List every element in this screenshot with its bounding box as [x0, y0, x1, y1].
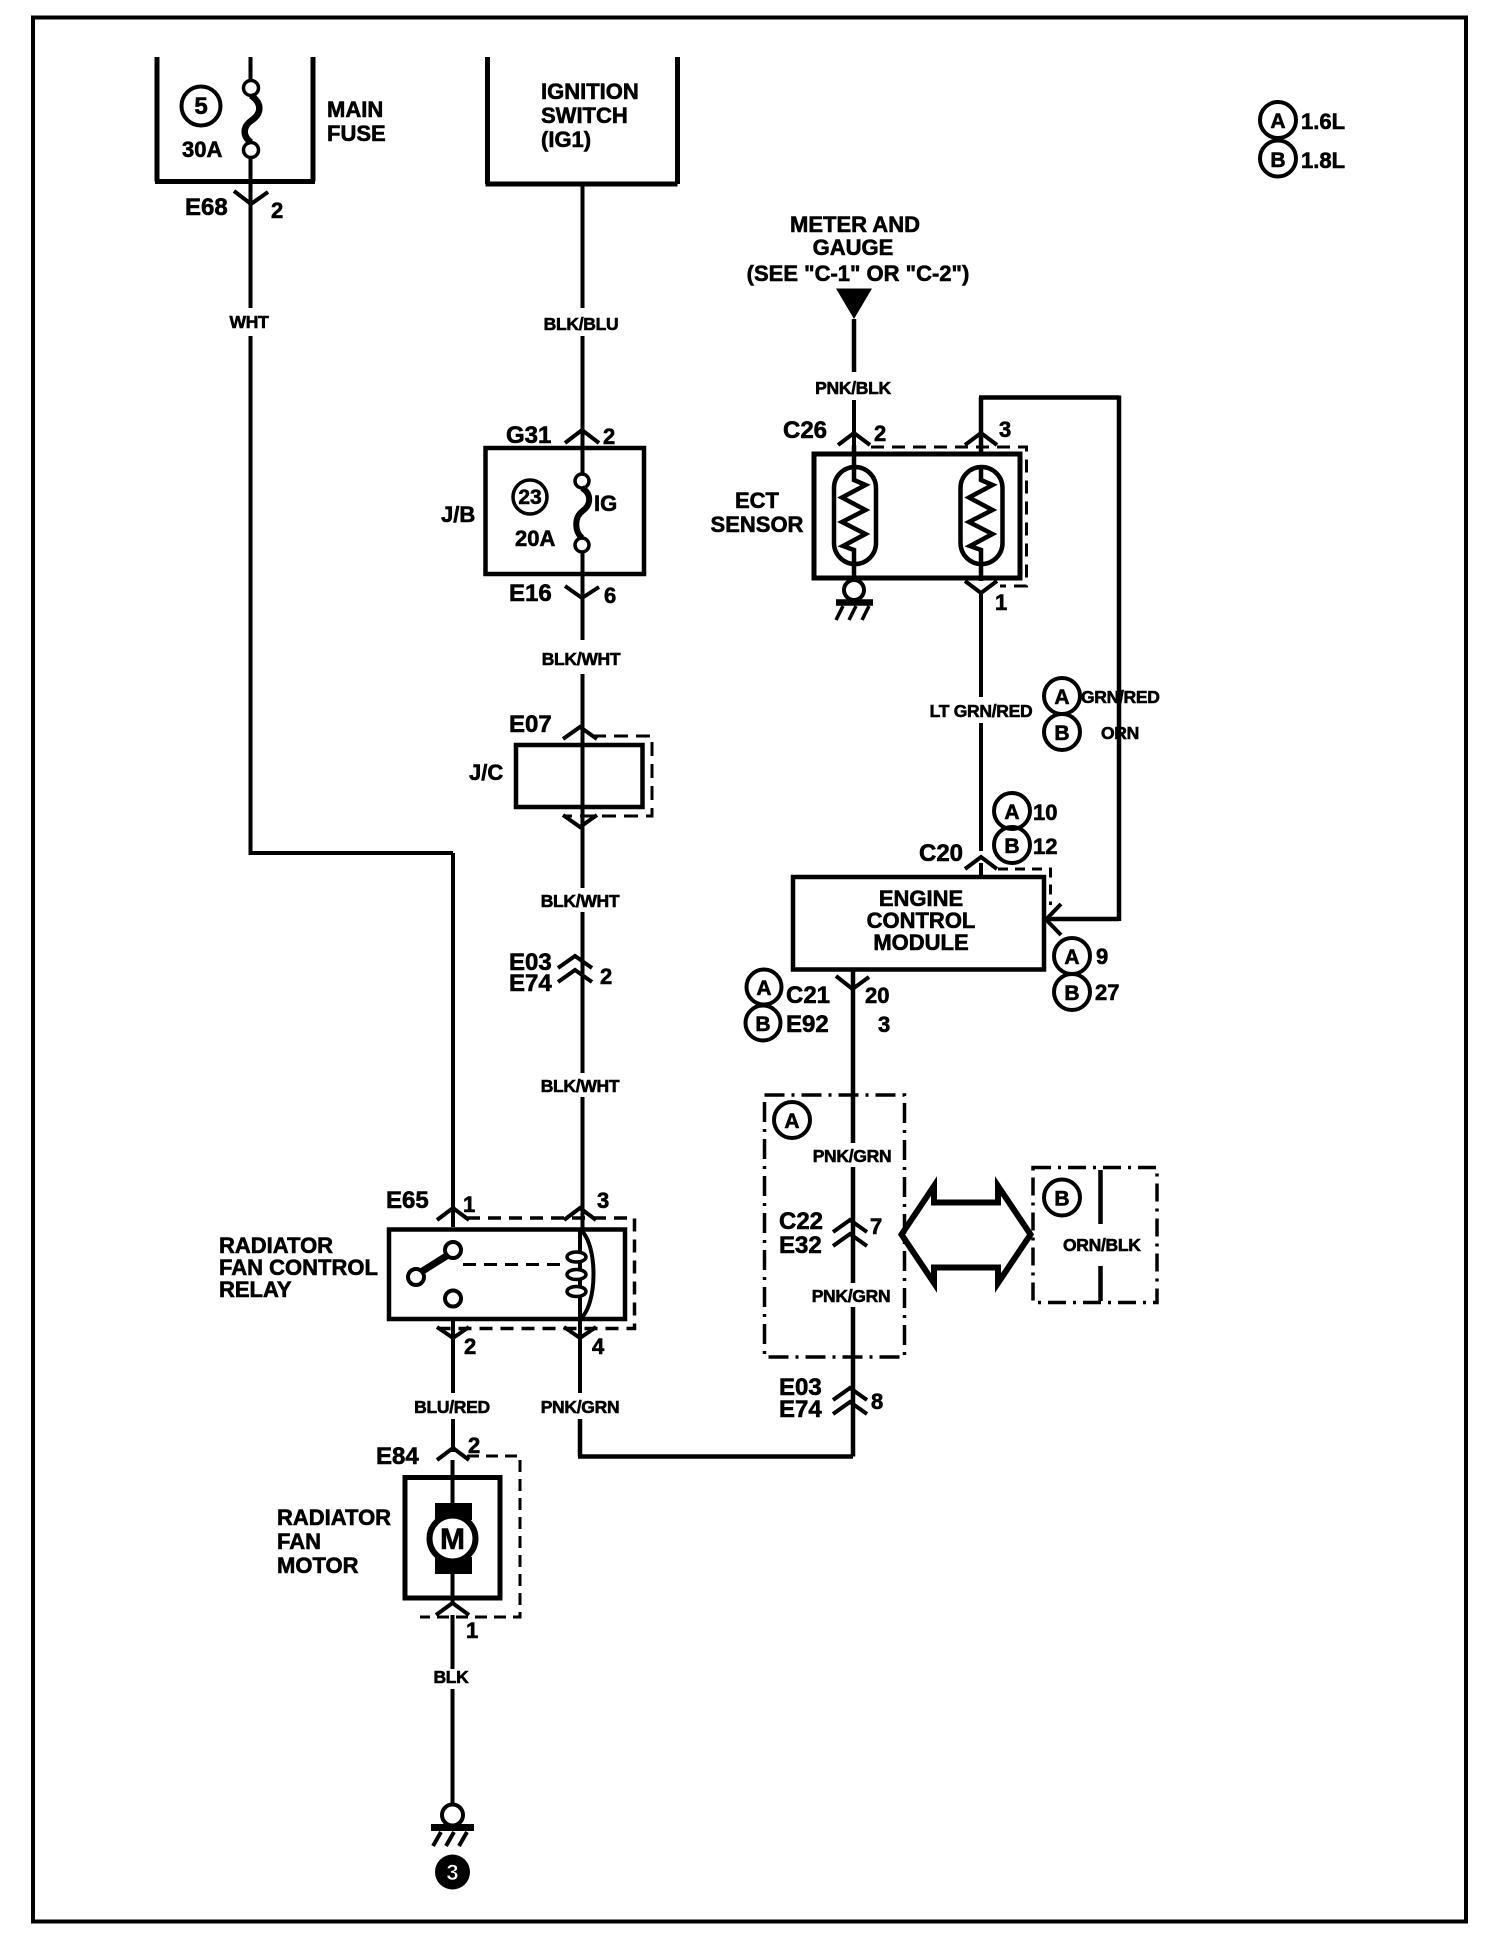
svg-text:23: 23: [518, 486, 541, 509]
svg-text:PNK/GRN: PNK/GRN: [813, 1146, 892, 1166]
svg-text:2: 2: [464, 1334, 476, 1359]
svg-text:20: 20: [865, 983, 889, 1008]
svg-text:BLK/BLU: BLK/BLU: [544, 314, 619, 334]
svg-text:2: 2: [271, 198, 283, 223]
svg-text:C22: C22: [779, 1208, 823, 1235]
svg-text:M: M: [440, 1523, 465, 1556]
svg-text:FAN: FAN: [277, 1529, 321, 1554]
svg-text:C26: C26: [783, 417, 827, 444]
svg-text:C21: C21: [786, 982, 830, 1009]
svg-text:B: B: [1054, 1188, 1069, 1211]
svg-text:2: 2: [468, 1433, 480, 1458]
wire BLK/WHT segment 1: [581, 574, 585, 640]
legend circle B 1.8L: [1260, 141, 1345, 177]
svg-text:B: B: [755, 1013, 770, 1036]
svg-text:WHT: WHT: [230, 312, 270, 332]
svg-text:E65: E65: [386, 1187, 429, 1214]
right thermistor: [961, 467, 1003, 581]
relay pin 2: [437, 1327, 469, 1338]
wire into motor: [451, 1460, 455, 1603]
svg-text:(IG1): (IG1): [541, 127, 591, 152]
motor dashed box: [420, 1456, 520, 1617]
dashed box B: [1033, 1168, 1157, 1303]
ground: [431, 1805, 474, 1847]
svg-text:A: A: [784, 1110, 799, 1133]
relay coil: [578, 1230, 582, 1320]
svg-text:5: 5: [194, 93, 207, 120]
svg-text:B: B: [1064, 982, 1079, 1005]
fuse IG 20A symbol: [575, 448, 589, 574]
svg-text:12: 12: [1033, 834, 1057, 859]
svg-text:A: A: [1054, 686, 1069, 709]
svg-text:PNK/BLK: PNK/BLK: [815, 378, 891, 398]
junction connector J/C box: [516, 745, 643, 807]
svg-text:A: A: [756, 977, 771, 1000]
circle A pin 9: [1054, 938, 1090, 974]
wire loop from ECT pin 3 to ECM: [979, 396, 1119, 922]
arrow to meter: [836, 289, 872, 320]
svg-text:10: 10: [1033, 800, 1057, 825]
wire WHT from main fuse to relay pin 1: [249, 182, 253, 309]
svg-text:6: 6: [604, 583, 616, 608]
svg-text:MODULE: MODULE: [873, 930, 968, 955]
main fuse box: [155, 57, 315, 182]
svg-text:RADIATOR: RADIATOR: [277, 1505, 391, 1530]
circle 23: [513, 480, 547, 514]
wire PNK/BLK: [852, 319, 857, 372]
wire LT GRN/RED: [979, 593, 983, 697]
svg-text:ORN/BLK: ORN/BLK: [1063, 1235, 1141, 1255]
ECT sensor box: [814, 454, 1020, 578]
wire PNK/GRN from relay pin 4: [578, 1319, 582, 1393]
fuse F5 30A symbol: [244, 57, 260, 182]
svg-text:J/B: J/B: [441, 502, 475, 527]
svg-text:1: 1: [995, 590, 1007, 615]
svg-text:27: 27: [1095, 980, 1119, 1005]
circle A pin 10: [994, 793, 1030, 829]
svg-text:BLK/WHT: BLK/WHT: [541, 891, 620, 911]
ECT pin 1: [965, 581, 997, 593]
svg-text:20A: 20A: [515, 526, 555, 551]
svg-text:30A: 30A: [182, 137, 222, 162]
svg-text:9: 9: [1096, 944, 1108, 969]
svg-text:7: 7: [870, 1214, 882, 1239]
svg-text:IG: IG: [594, 491, 617, 516]
svg-text:SENSOR: SENSOR: [711, 512, 804, 537]
circle B pin 12: [994, 827, 1030, 863]
circle B pin 27: [1054, 974, 1090, 1010]
engine control module box: [793, 877, 1044, 970]
motor M circle: [430, 1516, 476, 1562]
svg-text:FUSE: FUSE: [327, 121, 386, 146]
svg-text:J/C: J/C: [469, 760, 503, 785]
relay internal dashed link: [463, 1263, 566, 1266]
connector C21/E92 below ECM: [851, 970, 856, 1144]
ignition switch box: [486, 57, 678, 184]
svg-text:2: 2: [600, 964, 612, 989]
fuse number circle 5: [182, 87, 221, 126]
dashed box A: [765, 1095, 905, 1357]
svg-text:E84: E84: [376, 1443, 419, 1470]
wire BLK/BLU: [581, 184, 585, 308]
svg-text:E68: E68: [185, 194, 228, 221]
svg-text:3: 3: [446, 1860, 458, 1885]
svg-text:IGNITION: IGNITION: [541, 79, 639, 104]
svg-text:LT GRN/RED: LT GRN/RED: [930, 701, 1033, 721]
left thermistor: [834, 445, 876, 580]
wire stub in box B: [1098, 1170, 1103, 1301]
svg-text:METER AND: METER AND: [790, 212, 920, 237]
svg-text:1: 1: [463, 1192, 475, 1217]
svg-text:MAIN: MAIN: [327, 97, 383, 122]
svg-text:MOTOR: MOTOR: [277, 1553, 359, 1578]
svg-text:BLK/WHT: BLK/WHT: [542, 649, 621, 669]
svg-text:8: 8: [871, 1389, 883, 1414]
relay pin 1: [437, 1208, 469, 1220]
svg-text:1.6L: 1.6L: [1301, 109, 1345, 134]
svg-text:PNK/GRN: PNK/GRN: [541, 1397, 620, 1417]
svg-text:4: 4: [592, 1334, 605, 1359]
junction connector J/C dashed box: [564, 736, 652, 816]
svg-text:B: B: [1054, 722, 1069, 745]
svg-text:E74: E74: [779, 1396, 822, 1423]
svg-text:ECT: ECT: [735, 488, 780, 513]
ECT ground: [836, 580, 873, 620]
C20 dashed boundary: [998, 869, 1051, 905]
svg-text:E92: E92: [786, 1011, 829, 1038]
svg-text:E74: E74: [509, 970, 552, 997]
big double arrow: [902, 1186, 1031, 1283]
svg-text:3: 3: [597, 1188, 609, 1213]
radiator fan motor box: [405, 1478, 500, 1599]
svg-text:(SEE "C-1" OR "C-2"): (SEE "C-1" OR "C-2"): [747, 261, 970, 286]
junction block J/B box: [486, 448, 645, 574]
relay pin 3: [564, 1208, 596, 1220]
connector arrow below J/C: [563, 815, 597, 827]
svg-text:GAUGE: GAUGE: [813, 235, 894, 260]
svg-text:A: A: [1004, 801, 1019, 824]
svg-text:A: A: [1064, 946, 1079, 969]
radiator fan control relay box: [389, 1230, 625, 1320]
ground point 3: [435, 1855, 470, 1890]
svg-text:RELAY: RELAY: [219, 1277, 292, 1302]
svg-text:E32: E32: [779, 1232, 822, 1259]
svg-text:3: 3: [878, 1012, 890, 1037]
relay dashed box: [437, 1218, 635, 1329]
svg-text:C20: C20: [919, 840, 963, 867]
svg-text:1: 1: [466, 1618, 478, 1643]
motor pin 1: [436, 1603, 469, 1615]
svg-text:B: B: [1270, 149, 1285, 172]
svg-text:B: B: [1004, 835, 1019, 858]
svg-text:E07: E07: [509, 711, 552, 738]
svg-text:2: 2: [874, 421, 886, 446]
svg-text:3: 3: [999, 417, 1011, 442]
svg-text:G31: G31: [506, 422, 551, 449]
svg-text:PNK/GRN: PNK/GRN: [812, 1286, 891, 1306]
circle B ORN: [1044, 714, 1080, 750]
svg-text:GRN/RED: GRN/RED: [1081, 687, 1160, 707]
wire BLK: [451, 1615, 455, 1669]
motor brushes: [435, 1503, 472, 1520]
C26 dashed boundary: [871, 447, 1027, 586]
circle A GRN/RED: [1044, 678, 1080, 714]
svg-text:E16: E16: [509, 580, 552, 607]
arrowhead into ECM: [1046, 904, 1061, 935]
relay pin 4: [564, 1327, 596, 1338]
svg-text:1.8L: 1.8L: [1301, 148, 1345, 173]
svg-text:A: A: [1270, 110, 1285, 133]
svg-text:BLK/WHT: BLK/WHT: [541, 1076, 620, 1096]
relay switch contacts: [445, 1242, 461, 1258]
wire BLU/RED: [451, 1319, 455, 1393]
svg-text:BLK: BLK: [433, 1667, 469, 1687]
svg-text:ORN: ORN: [1101, 723, 1139, 743]
legend circle A 1.6L: [1260, 102, 1345, 138]
svg-text:2: 2: [603, 424, 615, 449]
svg-text:SWITCH: SWITCH: [541, 103, 628, 128]
svg-text:BLU/RED: BLU/RED: [414, 1397, 490, 1417]
